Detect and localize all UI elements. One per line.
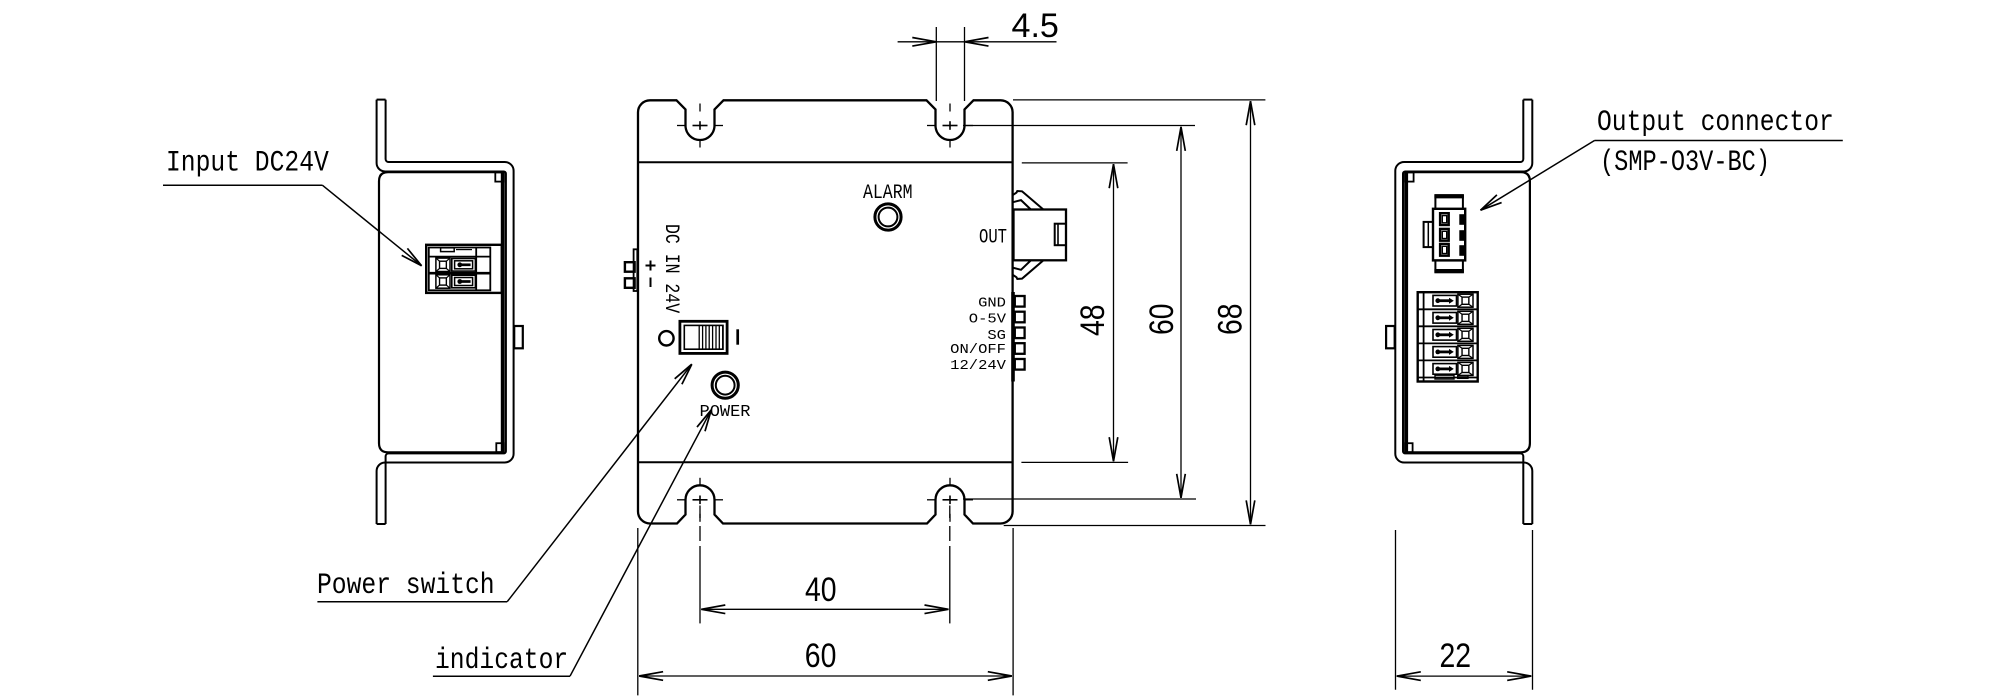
output connector bottom cap xyxy=(1435,260,1463,272)
terminal pins xyxy=(1015,296,1025,307)
front view body outline xyxy=(638,100,1013,523)
svg-text:GND: GND xyxy=(978,295,1006,311)
dim 60 line xyxy=(1180,127,1182,498)
left view notch bottom xyxy=(496,443,504,452)
dim 4.5 arrows xyxy=(912,42,936,46)
left view flange bottom cap xyxy=(377,523,386,525)
mount slot center mark bottom-left xyxy=(693,499,708,501)
power switch I mark xyxy=(736,329,739,344)
dim 60 bottom arrows xyxy=(639,672,663,676)
mount slot center mark top-right xyxy=(943,125,958,127)
svg-text:68: 68 xyxy=(1212,303,1250,335)
Output connector leader xyxy=(1595,140,1843,142)
dim 60 arrows xyxy=(1181,127,1185,151)
dim 68 line xyxy=(1250,101,1252,524)
svg-text:22: 22 xyxy=(1440,637,1472,675)
terminal block row 1 xyxy=(1433,295,1457,306)
dim 60 extension lines xyxy=(963,125,1195,127)
right view notch bottom xyxy=(1405,443,1413,452)
svg-text:Input DC24V: Input DC24V xyxy=(166,147,329,181)
front flange bend line top xyxy=(638,161,1013,163)
OUT connector notch xyxy=(1055,224,1066,246)
output connector pin 3 xyxy=(1440,244,1449,256)
DC input pin plate xyxy=(634,249,638,291)
minus mark xyxy=(650,278,652,288)
power switch knob hatch xyxy=(698,325,700,349)
terminal block row 3 xyxy=(1433,330,1457,341)
terminal block left column line xyxy=(1423,292,1425,381)
svg-text:indicator: indicator xyxy=(435,644,568,678)
dim 48 line xyxy=(1113,164,1115,461)
svg-text:Output connector: Output connector xyxy=(1597,106,1834,140)
svg-text:12/24V: 12/24V xyxy=(950,358,1006,374)
left view body front edge xyxy=(501,173,505,453)
right view body xyxy=(1405,172,1530,452)
dim 68 arrows xyxy=(1251,101,1255,125)
output connector left tab xyxy=(1424,222,1433,247)
power switch inner frame xyxy=(684,325,723,349)
OUT connector bottom wing xyxy=(1013,261,1044,279)
output connector main body xyxy=(1433,209,1465,261)
dim 40 line xyxy=(701,608,948,610)
terminal block bottom marks xyxy=(1435,375,1454,379)
svg-text:60: 60 xyxy=(805,637,837,675)
output connector pin 2 xyxy=(1440,229,1449,241)
ALARM LED inner xyxy=(879,208,898,227)
dim 22 line xyxy=(1397,675,1532,677)
svg-text:60: 60 xyxy=(1143,303,1181,335)
power switch O mark xyxy=(659,331,673,345)
Input DC24V leader xyxy=(163,184,323,186)
right view flange plate outer edge xyxy=(1403,100,1532,524)
dim 4.5 line xyxy=(898,41,1057,43)
right view body front edge xyxy=(1404,173,1408,453)
dim 68 extension lines xyxy=(1013,99,1265,101)
DC input pin lower xyxy=(625,278,635,288)
left view flange plate inner edge xyxy=(377,100,514,524)
svg-text:(SMP-O3V-BC): (SMP-O3V-BC) xyxy=(1600,146,1770,180)
OUT connector top wing xyxy=(1013,191,1044,209)
Power switch leader xyxy=(317,601,507,603)
right view flange bottom cap xyxy=(1523,523,1532,525)
dim 48 extension lines xyxy=(1022,162,1128,164)
svg-text:ON/OFF: ON/OFF xyxy=(950,342,1006,358)
output connector pin 1 xyxy=(1440,213,1449,225)
left view notch top xyxy=(495,172,504,181)
dim 48 arrows xyxy=(1114,164,1118,188)
input connector terminal row 2 xyxy=(436,275,450,288)
input connector top strip line xyxy=(429,256,491,258)
input connector divider vertical xyxy=(475,248,477,291)
plus mark xyxy=(646,265,656,267)
svg-text:OUT: OUT xyxy=(979,227,1007,250)
left view body xyxy=(379,172,504,452)
ALARM LED outer xyxy=(875,204,901,230)
input connector mid divider xyxy=(429,272,491,275)
right view flange top cap xyxy=(1523,99,1532,101)
dim 60 bottom line xyxy=(639,675,1012,677)
POWER LED inner xyxy=(716,376,735,395)
mount slot center mark bottom-right xyxy=(943,499,958,501)
power switch body xyxy=(680,321,727,353)
output connector top cap xyxy=(1435,195,1463,209)
input connector outer xyxy=(426,245,502,293)
DC input pin upper xyxy=(625,262,635,272)
output connector side teeth xyxy=(1459,214,1465,225)
dim 22 extension lines xyxy=(1395,530,1397,690)
svg-text:Power switch: Power switch xyxy=(317,569,495,603)
dim 40 arrows xyxy=(701,605,725,609)
svg-text:O-5V: O-5V xyxy=(969,311,1007,327)
right view switch tab xyxy=(1386,326,1395,348)
left view flange plate outer edge xyxy=(377,100,506,524)
right view notch top xyxy=(1405,172,1414,181)
dim 60 bottom extension lines xyxy=(637,528,639,695)
front flange bend line bottom xyxy=(638,461,1013,463)
indicator leader xyxy=(433,675,570,677)
left view switch tab xyxy=(514,326,523,348)
svg-text:48: 48 xyxy=(1074,304,1112,336)
dim 22 arrows xyxy=(1397,672,1421,676)
dim 40 extension lines xyxy=(699,506,701,519)
right view flange plate inner edge xyxy=(1395,100,1532,524)
dim 4.5 extension lines xyxy=(935,27,937,101)
input connector terminal row 1 xyxy=(436,258,450,271)
left view flange top cap xyxy=(377,99,386,101)
OUT connector body xyxy=(1014,210,1067,261)
svg-text:DC IN 24V: DC IN 24V xyxy=(659,224,682,314)
svg-text:4.5: 4.5 xyxy=(1012,7,1059,45)
POWER LED outer xyxy=(712,372,738,398)
mount slot center mark top-left xyxy=(693,125,708,127)
terminal block row 2 xyxy=(1433,313,1457,324)
input connector top notch xyxy=(441,248,455,252)
input connector inner xyxy=(429,248,491,291)
terminal block row 5 xyxy=(1433,364,1457,375)
terminal block outer xyxy=(1418,292,1478,381)
terminal block row lines xyxy=(1418,308,1478,310)
terminal block row 4 xyxy=(1433,347,1457,358)
terminal strip bar xyxy=(1011,292,1015,382)
svg-text:40: 40 xyxy=(805,571,837,609)
svg-text:ALARM: ALARM xyxy=(863,182,913,205)
